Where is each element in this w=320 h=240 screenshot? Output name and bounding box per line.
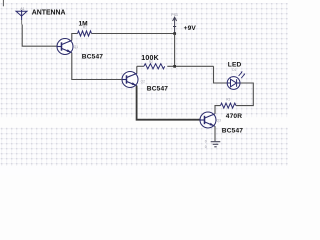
svg-text:Q1: Q1: [74, 45, 78, 49]
svg-text:Q3: Q3: [217, 119, 221, 123]
svg-text:R2: R2: [149, 60, 153, 64]
svg-text:BC547: BC547: [147, 85, 168, 92]
svg-text:470R: 470R: [226, 113, 242, 120]
transistor Q3: [200, 112, 216, 128]
junction node (rail top): [173, 32, 176, 35]
svg-text:0: 0: [205, 145, 207, 149]
svg-text:BC547: BC547: [82, 53, 103, 60]
resistor R2: [144, 64, 165, 69]
svg-text:Q2: Q2: [141, 80, 145, 84]
svg-text:R1: R1: [83, 26, 87, 30]
svg-text:A1: A1: [20, 7, 24, 11]
wire R1 to +9V rail: [92, 33, 175, 35]
resistor R1: [78, 31, 92, 36]
resistor R3: [221, 103, 236, 108]
svg-text:PS1: PS1: [171, 13, 178, 17]
svg-text:R3: R3: [226, 98, 230, 102]
wire antenna to Q1 base: [22, 25, 57, 47]
wire rail to LED anode: [214, 66, 228, 83]
transistor Q1: [57, 39, 73, 55]
wire Q1 emitter to Q2 base: [72, 53, 122, 80]
junction node (rail bottom): [173, 65, 176, 68]
power terminal PS1 +9V: [173, 17, 177, 33]
wire R2 to rail junction and to LED: [167, 65, 213, 67]
wire Q3 emitter to ground: [214, 126, 216, 141]
svg-text:D1: D1: [232, 68, 236, 72]
wire Q2 collector to R2: [137, 65, 144, 67]
svg-text:ANTENNA: ANTENNA: [32, 10, 66, 17]
wire R3 to LED cathode: [236, 83, 253, 106]
svg-text:BC547: BC547: [222, 127, 243, 134]
page edge mark: [2, 0, 4, 6]
ground: [211, 142, 221, 147]
wire Q2 collector up: [136, 66, 138, 73]
svg-text:+9V: +9V: [184, 25, 197, 32]
wire Q3 collector to R3: [215, 106, 221, 114]
wire +9V rail down: [174, 34, 176, 67]
wire Q1 collector to R1: [72, 34, 78, 41]
antenna A1: [16, 10, 27, 25]
wire Q2 emitter to Q3 base (dark): [137, 86, 200, 120]
transistor Q2: [122, 72, 138, 88]
svg-text:0: 0: [205, 140, 207, 144]
LED D1: [227, 71, 245, 89]
